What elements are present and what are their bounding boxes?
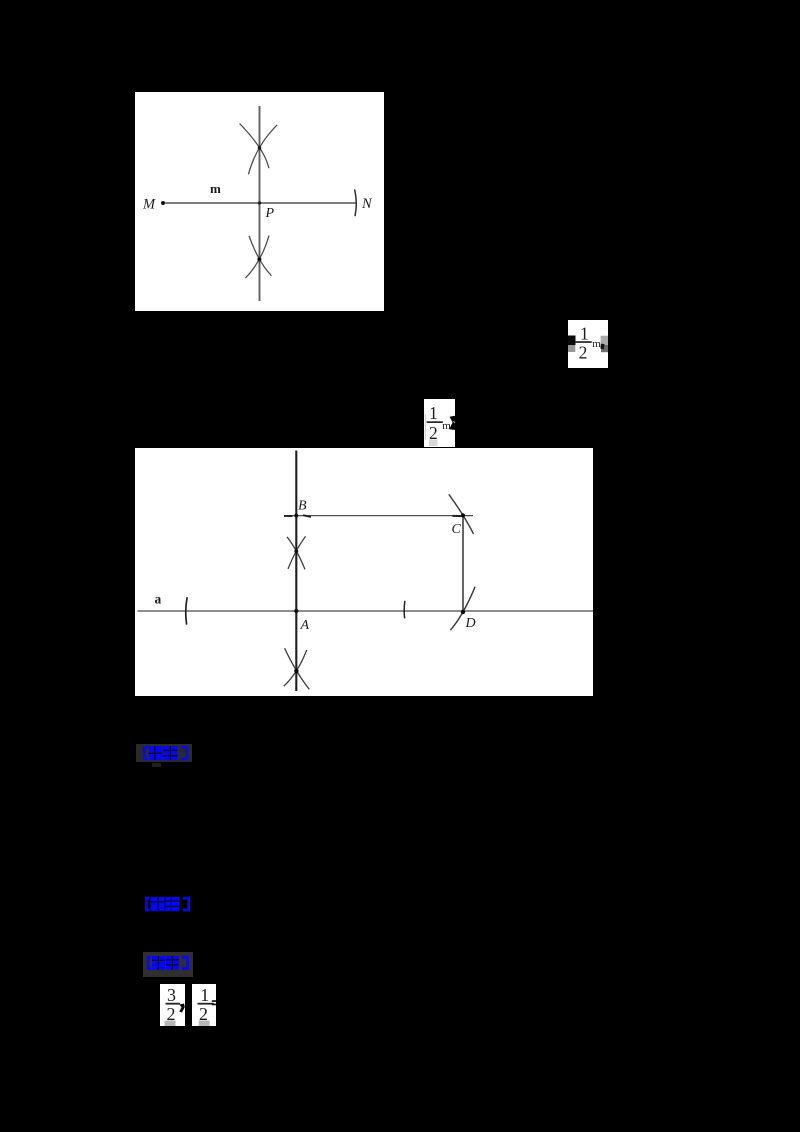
label A	[300, 618, 310, 633]
wire: segment MN horizontal line	[163, 202, 356, 204]
tick dash right of B	[303, 515, 311, 517]
value label: fraction 3/2	[166, 985, 181, 1024]
label m (line name)	[210, 181, 221, 196]
arc cross mark between B and A (compass X)	[287, 536, 306, 569]
node A junction dot	[294, 609, 298, 613]
artifact gray block bottom	[165, 1021, 176, 1027]
artifact gray block bottom	[199, 1020, 210, 1025]
svg-text:1: 1	[429, 403, 438, 423]
value label: fraction 1/2	[427, 403, 443, 443]
label M	[142, 197, 156, 213]
label B	[298, 499, 307, 514]
artifact dark comma mark	[179, 1004, 185, 1013]
value label: m,	[592, 338, 601, 350]
wire: segment through B to C horizontal	[284, 515, 473, 517]
wire: segment C to D vertical	[462, 515, 464, 612]
wire: vertical bisector line through P	[259, 106, 261, 301]
svg-text:1: 1	[580, 323, 589, 343]
figure panel 1: perpendicular bisector construction of segment MN	[135, 92, 384, 311]
arc through D	[450, 587, 475, 631]
svg-text:3: 3	[167, 985, 176, 1005]
comma after m	[600, 344, 604, 350]
artifact dark wedge right edge	[449, 416, 456, 430]
label strip 1 background	[136, 744, 193, 763]
node M endpoint dot	[161, 201, 165, 205]
wire: vertical line through A and B	[295, 451, 297, 692]
formula box: = 1/2 m, (inline math image)	[568, 320, 608, 368]
svg-text:m: m	[210, 181, 221, 196]
svg-text:m: m	[592, 338, 601, 350]
wire: line a horizontal	[137, 610, 593, 612]
svg-text:M: M	[142, 197, 156, 213]
value label: fraction 1/2	[197, 985, 213, 1024]
svg-text:A: A	[300, 618, 310, 633]
svg-text:N: N	[361, 196, 373, 212]
arc tick at N end	[355, 189, 357, 216]
label C	[452, 522, 462, 537]
value label: half-cut equals fragment	[568, 336, 576, 353]
value label: fraction 1/2	[575, 323, 592, 362]
artifact faint gray under 2	[429, 440, 438, 447]
value label: m	[442, 420, 451, 432]
dark mark between fraction boxes	[179, 1000, 188, 1010]
artifact equals fragment right edge	[212, 1000, 216, 1005]
artifact faint rule left	[425, 414, 426, 440]
node D junction dot	[461, 610, 465, 614]
svg-text:1: 1	[200, 985, 209, 1005]
faint text residue under heading 1	[152, 763, 161, 767]
svg-text:m: m	[442, 420, 451, 432]
svg-text:a: a	[155, 592, 162, 607]
svg-text:C: C	[452, 522, 462, 537]
arc cross mark above P (upper compass X)	[240, 124, 278, 175]
figure panel 2: construction of parallel line a through B (rectangle ABCD construction)	[135, 448, 593, 696]
artifact blocks right edge	[601, 336, 608, 353]
label N	[361, 196, 373, 212]
svg-text:P: P	[265, 206, 275, 221]
node C junction dot	[461, 513, 465, 517]
formula box: 1/2 m (inline math image)	[424, 399, 455, 447]
svg-text:D: D	[465, 616, 476, 631]
label P	[265, 206, 275, 221]
arc through C	[449, 494, 474, 534]
blue heading 3	[145, 955, 190, 971]
label strip 3 background	[143, 952, 193, 977]
tick dash left of B	[284, 515, 293, 517]
arc tick on line a left	[186, 597, 187, 624]
svg-text:2: 2	[579, 342, 588, 362]
node B junction dot	[294, 514, 298, 518]
arc tick on line a middle	[403, 601, 406, 619]
label a (line name)	[155, 592, 162, 607]
blue heading 1	[141, 745, 190, 761]
node P junction dot	[258, 201, 261, 204]
arc cross mark below A (compass X)	[284, 648, 310, 689]
svg-text:B: B	[298, 499, 307, 514]
fraction box 1/2	[192, 984, 216, 1026]
label D	[465, 616, 476, 631]
tick dash left of C	[453, 515, 462, 517]
blue heading 2	[143, 896, 192, 912]
arc cross mark below P (lower compass X)	[245, 236, 271, 279]
fraction box 3/2	[160, 984, 185, 1026]
